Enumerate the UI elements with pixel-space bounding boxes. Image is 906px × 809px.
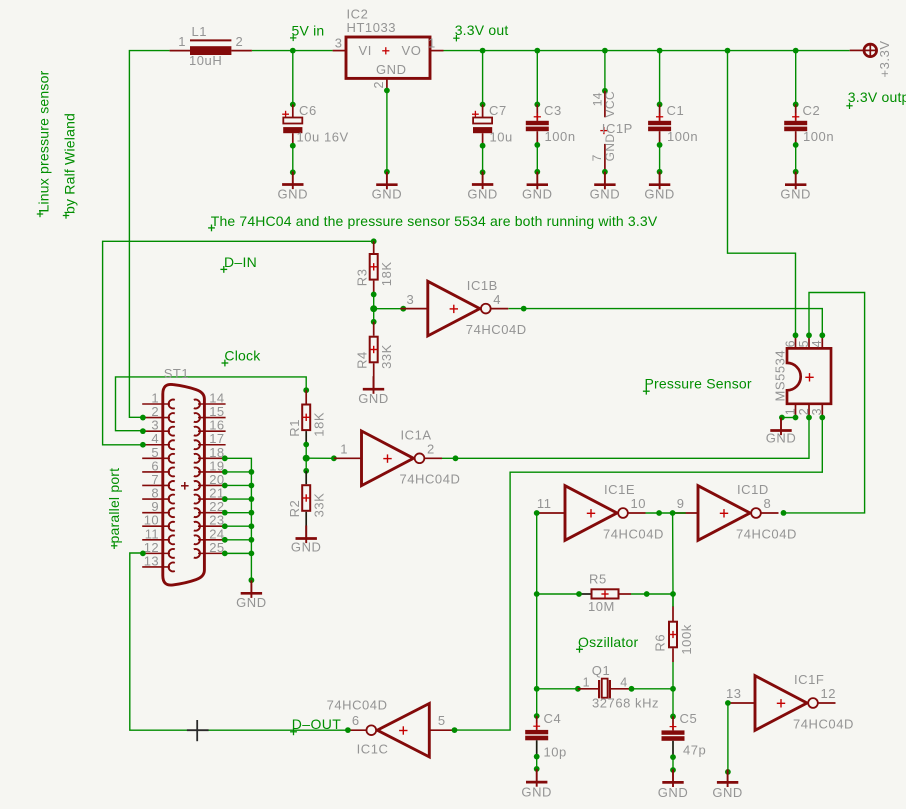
- ground under IC2: [372, 172, 403, 202]
- svg-text:VI: VI: [359, 43, 372, 58]
- svg-text:C4: C4: [544, 711, 562, 726]
- svg-text:3: 3: [810, 408, 824, 415]
- junction R5 right column: [670, 591, 676, 597]
- svg-text:The 74HC04 and the pressure se: The 74HC04 and the pressure sensor 5534 …: [211, 213, 658, 229]
- svg-text:GND: GND: [372, 187, 403, 202]
- svg-text:GND: GND: [603, 134, 617, 162]
- svg-text:6: 6: [352, 713, 360, 728]
- svg-text:4: 4: [810, 340, 824, 347]
- svg-text:GND: GND: [376, 62, 407, 77]
- svg-text:10uH: 10uH: [189, 53, 222, 68]
- voltage regulator IC2 HT1033: [333, 7, 444, 91]
- wire R1-R2 node: [303, 431, 309, 484]
- junction rail at IC1P: [602, 48, 608, 54]
- svg-text:1: 1: [340, 442, 348, 457]
- svg-text:4: 4: [493, 292, 501, 307]
- junction rail at C7: [480, 48, 486, 54]
- svg-text:47p: 47p: [683, 743, 706, 758]
- svg-text:13: 13: [144, 553, 159, 568]
- wire IC1F input to ground: [725, 700, 731, 775]
- svg-text:11: 11: [537, 496, 552, 511]
- svg-text:R1: R1: [287, 419, 302, 437]
- wire sensor DOUT pin 3 to IC1C input: [455, 418, 823, 731]
- wire D-OUT from IC1C to port pin 12: [130, 553, 348, 730]
- svg-text:HT1033: HT1033: [347, 20, 397, 35]
- junction R3/R4 divider: [370, 305, 377, 312]
- svg-text:C2: C2: [803, 103, 821, 118]
- svg-text:13: 13: [726, 686, 742, 701]
- title Linux pressure sensor: [36, 70, 52, 217]
- svg-text:18K: 18K: [379, 261, 394, 286]
- wire IC1E output to IC1D input: [646, 510, 686, 516]
- svg-text:GND: GND: [236, 595, 267, 610]
- wire R5 to columns: [537, 593, 673, 595]
- svg-text:Clock: Clock: [224, 348, 261, 364]
- junction at R1 top: [303, 387, 309, 393]
- svg-text:3: 3: [407, 292, 415, 307]
- svg-text:C5: C5: [680, 711, 698, 726]
- svg-text:74HC04D: 74HC04D: [400, 472, 461, 487]
- svg-text:VO: VO: [402, 43, 422, 58]
- capacitor C2: [784, 102, 834, 175]
- svg-text:Oszillator: Oszillator: [578, 634, 638, 650]
- wire IC1B output to sensor DIN pin 4: [509, 306, 823, 336]
- svg-text:5V in: 5V in: [292, 23, 325, 39]
- svg-text:R6: R6: [653, 634, 668, 652]
- svg-text:VCC: VCC: [603, 91, 617, 118]
- svg-text:74HC04D: 74HC04D: [736, 526, 797, 541]
- svg-text:10u 16V: 10u 16V: [297, 130, 349, 145]
- junction R5 left column: [534, 591, 540, 597]
- wire sensor SCLK pin 5 from IC1D output: [781, 293, 865, 516]
- power gate IC1P pins 14 VCC / 7 GND: [590, 88, 633, 175]
- ground under IC1P: [590, 172, 621, 202]
- ground under sensor: [766, 418, 797, 446]
- svg-text:C3: C3: [544, 103, 562, 118]
- svg-text:2: 2: [372, 81, 386, 88]
- crystal Q1 32768 kHz: [537, 663, 673, 710]
- junction rail at C3: [534, 48, 540, 54]
- junction rail at C2: [793, 48, 799, 54]
- resistor R2 33K: [287, 485, 327, 517]
- junction IC1C input: [452, 727, 458, 733]
- wire C6 drop: [292, 51, 294, 105]
- svg-text:100n: 100n: [545, 129, 576, 144]
- label parallel port: [106, 468, 122, 549]
- svg-text:2: 2: [797, 408, 811, 415]
- svg-text:C1: C1: [667, 103, 685, 118]
- svg-text:GND: GND: [780, 187, 811, 202]
- junction at R3 top: [371, 238, 377, 244]
- svg-text:GND: GND: [766, 430, 797, 445]
- svg-text:GND: GND: [712, 785, 743, 800]
- svg-text:8: 8: [764, 496, 772, 511]
- svg-text:33K: 33K: [379, 344, 394, 369]
- svg-text:3: 3: [335, 36, 343, 51]
- capacitor C6: [282, 102, 349, 176]
- svg-text:1: 1: [178, 34, 186, 49]
- wire C7 drop: [482, 51, 484, 105]
- svg-text:Linux pressure sensor: Linux pressure sensor: [36, 70, 52, 212]
- svg-text:C7: C7: [489, 103, 507, 118]
- svg-text:GND: GND: [522, 187, 553, 202]
- svg-text:2: 2: [427, 442, 435, 457]
- title by Ralf Wieland: [62, 113, 78, 219]
- ground under C2: [780, 172, 811, 202]
- svg-text:R3: R3: [355, 268, 370, 286]
- svg-text:18K: 18K: [312, 412, 327, 437]
- svg-text:10p: 10p: [544, 745, 567, 760]
- svg-text:D–IN: D–IN: [224, 254, 257, 270]
- wire port pins 18-25 ground bus: [222, 455, 254, 583]
- svg-text:10M: 10M: [588, 599, 615, 614]
- svg-text:by Ralf Wieland: by Ralf Wieland: [62, 113, 78, 214]
- inductor L1: [170, 24, 252, 68]
- resistor R1 18K: [287, 390, 327, 437]
- ground under C4: [521, 769, 552, 799]
- junction port pin 4: [140, 442, 146, 448]
- svg-text:1: 1: [783, 408, 797, 415]
- frame origin cross: [187, 720, 209, 741]
- svg-text:100n: 100n: [667, 129, 698, 144]
- svg-text:GND: GND: [467, 187, 498, 202]
- svg-text:GND: GND: [658, 785, 689, 800]
- svg-text:4: 4: [620, 675, 627, 689]
- connector ST1 DB25 parallel port: [142, 366, 225, 585]
- resistor R6 100k: [653, 594, 695, 662]
- svg-text:10: 10: [631, 496, 647, 511]
- ground under C3: [522, 172, 553, 202]
- junction 5V at C6: [290, 48, 296, 54]
- svg-text:IC1D: IC1D: [737, 482, 769, 497]
- ground under ST1: [236, 580, 267, 610]
- svg-text:GND: GND: [521, 784, 552, 799]
- junction port pin 12: [140, 550, 146, 556]
- svg-text:IC1E: IC1E: [604, 482, 635, 497]
- ground under R2: [291, 526, 322, 555]
- inverter IC1A: [334, 428, 460, 487]
- resistor R3 18K: [355, 241, 395, 286]
- ground under IC1F: [712, 769, 743, 799]
- svg-text:74HC04D: 74HC04D: [327, 698, 388, 713]
- svg-text:R5: R5: [589, 572, 607, 587]
- svg-text:R4: R4: [355, 351, 370, 369]
- junction IC1C output: [345, 727, 351, 733]
- svg-text:74HC04D: 74HC04D: [466, 322, 527, 337]
- svg-text:74HC04D: 74HC04D: [793, 716, 854, 731]
- junction crystal right: [670, 686, 676, 692]
- svg-text:IC1B: IC1B: [467, 278, 498, 293]
- svg-text:GND: GND: [358, 391, 389, 406]
- svg-text:74HC04D: 74HC04D: [603, 526, 664, 541]
- capacitor C1: [648, 102, 698, 175]
- wire C3 drop: [536, 51, 538, 105]
- capacitor C3: [526, 102, 576, 175]
- inverter IC1D: [671, 482, 797, 541]
- junction IC1E input: [534, 510, 540, 516]
- wire IC1A output to sensor DIN riser: [442, 418, 809, 462]
- svg-text:6: 6: [783, 340, 797, 347]
- junction rail at sensor feed: [725, 48, 731, 54]
- svg-text:L1: L1: [192, 24, 208, 39]
- svg-text:IC1C: IC1C: [357, 742, 389, 757]
- svg-text:32768 kHz: 32768 kHz: [592, 696, 659, 711]
- ground under R4: [358, 376, 389, 406]
- label D-OUT: [290, 716, 341, 735]
- label D-IN: [220, 254, 257, 273]
- inverter IC1B: [400, 278, 526, 337]
- note text running with 3.3V: [208, 213, 658, 231]
- inverter IC1F: [726, 672, 854, 731]
- capacitor C7: [472, 102, 513, 176]
- junction crystal left: [534, 686, 540, 692]
- svg-text:+3.3V: +3.3V: [877, 40, 892, 77]
- inverter IC1E: [537, 482, 664, 541]
- svg-text:100n: 100n: [803, 129, 834, 144]
- wire 3.3V to sensor pin 6: [728, 51, 796, 336]
- wire R2 to ground: [305, 512, 307, 539]
- svg-text:MS5534: MS5534: [773, 350, 788, 402]
- svg-text:parallel port: parallel port: [106, 468, 122, 544]
- wire C1 drop: [659, 51, 661, 105]
- label Clock: [222, 348, 262, 367]
- junction rail at C1: [657, 48, 663, 54]
- svg-text:Q1: Q1: [592, 663, 610, 678]
- svg-text:2: 2: [236, 34, 244, 49]
- wire +5V rail segment from port pin 2 riser to IC2 VI: [129, 51, 332, 418]
- capacitor C5: [662, 711, 707, 773]
- svg-text:R2: R2: [287, 500, 302, 518]
- svg-text:3.3V output: 3.3V output: [848, 89, 906, 105]
- ground under C6: [278, 172, 309, 202]
- wire oscillator right column: [672, 513, 674, 716]
- supply symbol +3.3V: [850, 40, 892, 77]
- ground under C7: [467, 172, 498, 202]
- svg-text:GND: GND: [644, 187, 675, 202]
- svg-text:GND: GND: [291, 540, 322, 555]
- pressure sensor MS5534: [773, 332, 831, 420]
- svg-text:7: 7: [590, 154, 604, 161]
- capacitor C4: [525, 711, 567, 772]
- junction R1/R2 divider: [303, 455, 310, 462]
- wire IC1P VCC drop: [604, 51, 606, 91]
- svg-text:IC1F: IC1F: [794, 672, 824, 687]
- wire D-IN from port pin 4 to R3: [103, 241, 374, 444]
- svg-text:10u: 10u: [490, 130, 513, 145]
- svg-text:5: 5: [438, 713, 446, 728]
- wire R3-R4 node: [371, 281, 377, 336]
- label 3.3V out: [453, 22, 508, 42]
- wire oscillator left column: [536, 513, 538, 716]
- label Pressure Sensor: [643, 376, 752, 395]
- svg-text:ST1: ST1: [164, 366, 190, 381]
- junction port pin 2: [140, 415, 146, 421]
- svg-text:GND: GND: [590, 187, 621, 202]
- svg-text:12: 12: [821, 686, 837, 701]
- wire C2 drop: [795, 51, 797, 105]
- label 5V in: [290, 23, 324, 42]
- resistor R5 10M: [576, 572, 650, 614]
- svg-text:33K: 33K: [312, 493, 327, 518]
- label 3.3V output: [846, 89, 906, 109]
- svg-text:D–OUT: D–OUT: [292, 716, 341, 732]
- svg-text:3.3V out: 3.3V out: [455, 22, 509, 38]
- wire divider to IC1B input: [374, 306, 406, 312]
- wire Clock from port pin 3 to R1: [116, 377, 307, 431]
- resistor R4 33K: [355, 337, 395, 390]
- junction port pin 3: [140, 428, 146, 434]
- svg-text:1: 1: [428, 36, 436, 51]
- svg-text:9: 9: [677, 496, 685, 511]
- wire sensor pin 1 to ground: [779, 415, 796, 421]
- ground under C5: [658, 769, 689, 799]
- svg-text:GND: GND: [278, 187, 309, 202]
- label Oszillator: [576, 634, 638, 653]
- svg-text:C6: C6: [299, 103, 317, 118]
- svg-text:1: 1: [583, 675, 590, 689]
- wire divider to IC1A input: [306, 455, 337, 461]
- ground under C1: [644, 172, 675, 202]
- svg-text:100k: 100k: [679, 624, 694, 654]
- svg-text:5: 5: [797, 340, 811, 347]
- svg-text:Pressure Sensor: Pressure Sensor: [645, 376, 752, 392]
- wire IC2 GND drop: [384, 88, 390, 175]
- svg-text:IC1A: IC1A: [401, 428, 432, 443]
- wire 3.3V rail: [444, 50, 850, 52]
- inverter IC1C: [327, 698, 457, 757]
